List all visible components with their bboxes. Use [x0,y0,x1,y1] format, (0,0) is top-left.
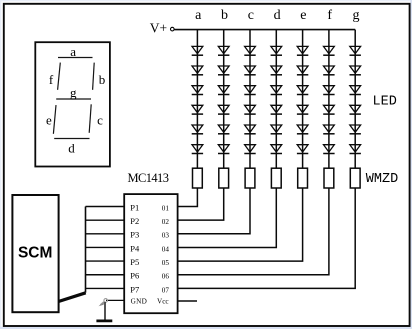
svg-text:g: g [70,85,77,100]
svg-text:d: d [68,140,75,155]
svg-text:07: 07 [162,286,170,294]
svg-text:06: 06 [162,273,170,281]
svg-text:01: 01 [162,204,170,212]
svg-text:GND: GND [131,297,147,305]
svg-text:f: f [49,72,54,87]
svg-text:P2: P2 [130,216,139,226]
svg-text:P4: P4 [130,243,140,253]
svg-text:b: b [221,8,228,23]
svg-text:c: c [248,8,254,23]
svg-text:e: e [300,8,306,23]
svg-text:b: b [99,72,106,87]
svg-text:c: c [97,113,103,128]
svg-text:a: a [195,8,202,23]
svg-text:e: e [46,113,52,128]
svg-text:a: a [70,44,76,59]
svg-text:d: d [274,8,281,23]
svg-text:WMZD: WMZD [366,172,398,187]
svg-text:P7: P7 [130,284,139,294]
svg-text:P5: P5 [130,257,139,267]
svg-text:LED: LED [373,94,397,109]
svg-text:f: f [327,8,332,23]
svg-text:P3: P3 [130,230,139,240]
svg-text:03: 03 [162,232,170,240]
svg-text:V+: V+ [150,20,167,35]
svg-text:MC1413: MC1413 [128,171,169,185]
svg-text:05: 05 [162,259,170,267]
svg-text:P1: P1 [130,202,139,212]
svg-text:Vcc: Vcc [157,297,169,305]
svg-text:02: 02 [162,218,170,226]
svg-text:P6: P6 [130,271,139,281]
svg-text:g: g [353,8,360,23]
svg-text:04: 04 [162,245,170,253]
svg-text:SCM: SCM [18,245,52,262]
